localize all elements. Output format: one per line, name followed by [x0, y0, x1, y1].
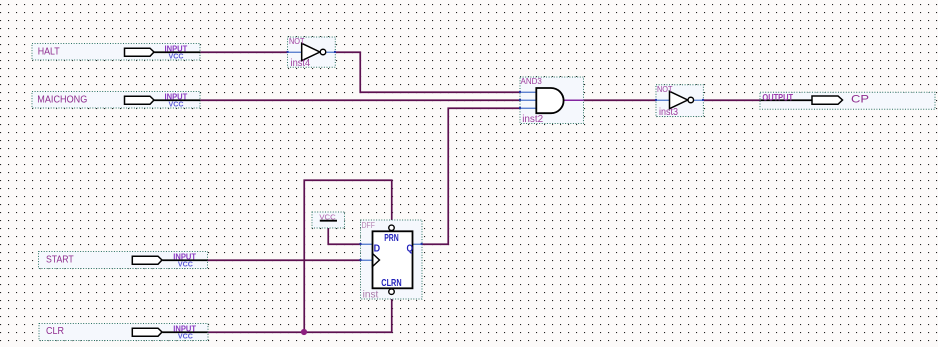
inversion bubble	[688, 97, 694, 103]
wire START input to DFF clock	[208, 259, 361, 261]
symbol boundary box	[32, 44, 200, 61]
output pin stub	[694, 99, 704, 101]
svg-text:VCC: VCC	[178, 260, 194, 269]
flip-flop body	[373, 231, 413, 288]
svg-text:D: D	[374, 244, 381, 255]
input pin 1 stub	[520, 91, 536, 93]
Q output pin stub	[413, 243, 423, 245]
svg-text:DFF: DFF	[362, 220, 375, 230]
input pin MAICHONG	[32, 92, 200, 109]
input pin arrow shape	[125, 96, 155, 104]
svg-text:NOT: NOT	[289, 37, 305, 46]
wire VCC to DFF D input	[328, 221, 361, 244]
clock edge triangle	[373, 254, 380, 267]
svg-text:CLRN: CLRN	[381, 278, 401, 289]
input pin arrow shape	[132, 256, 162, 264]
symbol boundary box	[32, 92, 200, 109]
input pin stub	[288, 51, 302, 53]
AND gate body	[536, 88, 563, 113]
PRN inversion bubble	[389, 225, 395, 231]
svg-text:Q: Q	[407, 244, 414, 255]
svg-text:VCC: VCC	[169, 100, 185, 109]
pin lead line	[154, 99, 200, 101]
svg-text:inst2: inst2	[522, 114, 543, 125]
svg-text:START: START	[46, 253, 74, 265]
wire MAICHONG input to AND3 input 2	[200, 99, 520, 101]
wire NOT inst4 output to AND3 input 1	[336, 52, 521, 92]
junction node on CLR net	[301, 329, 307, 335]
input pin stub	[656, 99, 670, 101]
NOT gate U3 (inst3)	[655, 85, 704, 118]
input pin arrow shape	[132, 328, 162, 336]
input pin 3 stub	[520, 107, 536, 109]
svg-text:HALT: HALT	[38, 46, 60, 58]
wire CLR input to DFF CLRN	[208, 295, 392, 332]
svg-text:VCC: VCC	[169, 52, 185, 61]
svg-text:CLR: CLR	[46, 325, 64, 337]
symbol boundary box	[520, 77, 584, 124]
svg-text:inst4: inst4	[291, 58, 311, 69]
input pin CLR	[39, 324, 208, 341]
svg-text:CP: CP	[851, 93, 869, 105]
input pin arrow shape	[125, 48, 155, 56]
wire DFF Q output to AND3 input 3	[422, 108, 520, 244]
wire HALT input to NOT inst4	[200, 51, 288, 53]
symbol boundary box	[39, 252, 208, 269]
AND3 gate U2 (inst2)	[519, 76, 584, 125]
wire NOT inst3 output to OUTPUT pin	[704, 99, 761, 101]
pin lead line	[162, 259, 208, 261]
symbol boundary box	[288, 37, 336, 67]
svg-text:inst3: inst3	[659, 107, 678, 118]
D flip-flop U1 (DFF inst)	[360, 220, 423, 300]
svg-text:AND3: AND3	[521, 76, 543, 86]
svg-text:OUTPUT: OUTPUT	[762, 93, 793, 103]
VCC rail bar	[320, 220, 337, 222]
inversion bubble	[320, 49, 326, 55]
symbol boundary box	[656, 85, 703, 117]
output pin CP	[760, 92, 935, 109]
CLRN inversion bubble	[389, 289, 395, 295]
NOT gate U4 (inst4)	[287, 37, 336, 69]
symbol boundary box	[361, 220, 423, 299]
svg-text:MAICHONG: MAICHONG	[37, 94, 87, 106]
pin lead line	[162, 331, 208, 333]
input pin START	[39, 252, 208, 269]
pin lead line	[154, 51, 200, 53]
output pin stub	[326, 51, 335, 53]
output pin arrow shape	[812, 96, 843, 104]
symbol boundary box	[312, 212, 345, 228]
symbol boundary box	[760, 92, 935, 109]
inverter triangle	[670, 91, 688, 108]
svg-text:VCC: VCC	[178, 332, 194, 341]
pin lead line	[760, 99, 812, 101]
input pin HALT	[32, 44, 200, 61]
clock input pin stub	[361, 259, 373, 261]
D input pin stub	[361, 243, 373, 245]
symbol boundary box	[39, 324, 208, 341]
input pin 2 stub	[520, 99, 536, 101]
VCC power symbol	[312, 212, 345, 228]
svg-text:PRN: PRN	[384, 233, 399, 244]
svg-text:inst: inst	[363, 289, 379, 300]
svg-text:NOT: NOT	[657, 85, 673, 94]
wire AND3 output to NOT inst3	[584, 99, 657, 101]
inverter triangle	[302, 43, 320, 60]
output pin stub	[564, 99, 584, 101]
wire CLR branch to DFF PRN	[304, 180, 392, 332]
